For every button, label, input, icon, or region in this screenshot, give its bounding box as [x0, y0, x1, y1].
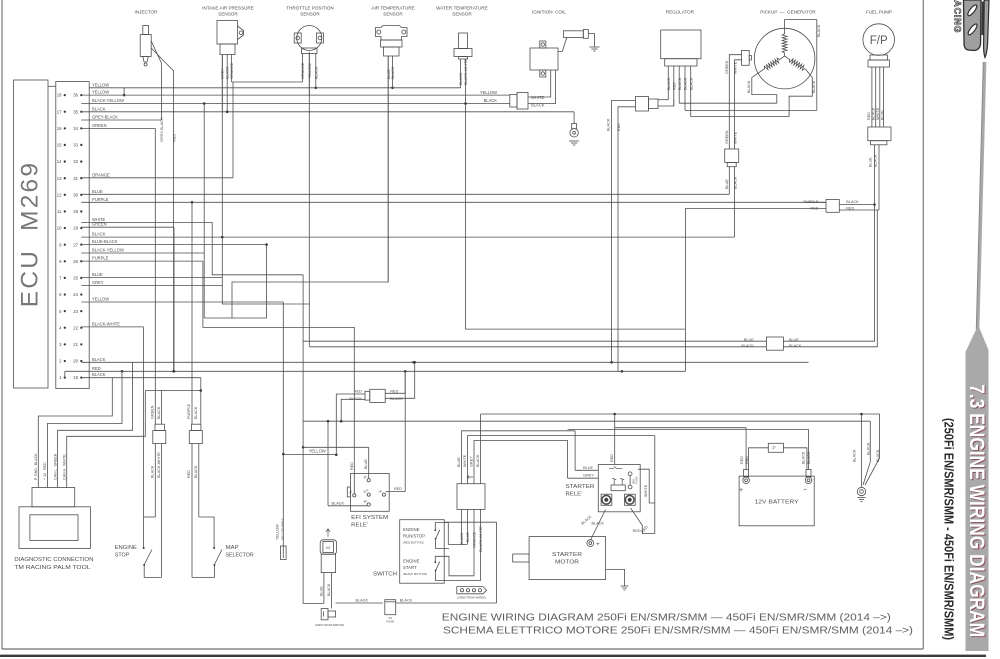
- svg-text:BLACK: BLACK: [390, 397, 403, 401]
- svg-text:SENSOR: SENSOR: [218, 12, 238, 17]
- svg-text:26: 26: [73, 259, 78, 264]
- ATS body: [376, 26, 408, 41]
- node black-yellow tap: [203, 102, 206, 105]
- svg-text:H2: H2: [326, 546, 330, 550]
- wire connector right to fuel pump: [839, 204, 874, 206]
- wire connector Q right black to fuel pump: [783, 210, 877, 347]
- wire green engine stop: [154, 128, 156, 424]
- H2O sensor connector: [320, 540, 336, 554]
- TPS left ear: [294, 33, 301, 43]
- svg-text:INTAKE AIR PRESSURE: INTAKE AIR PRESSURE: [202, 6, 253, 11]
- svg-text:STARTER: STARTER: [552, 552, 583, 558]
- svg-text:12: 12: [57, 192, 62, 197]
- wire black staircase pin9a: [222, 237, 309, 304]
- spark plug symbol: [572, 124, 577, 129]
- svg-text:SENSOR: SENSOR: [300, 12, 320, 17]
- svg-text:BLUE: BLUE: [725, 179, 729, 189]
- generator winding lower-right coil: [785, 56, 806, 70]
- svg-text:BLACK: BLACK: [151, 465, 155, 478]
- wire black-white pin4 drop: [142, 327, 144, 548]
- wire connector right black to black bus: [385, 362, 415, 398]
- svg-text:RELE’: RELE’: [566, 492, 583, 498]
- starter motor box: [529, 537, 606, 580]
- wire purple map upper: [191, 202, 193, 424]
- ground starter motor: [621, 586, 629, 590]
- plug cap end: [583, 30, 588, 39]
- wire yellow to efi relay coil: [283, 454, 335, 456]
- wire blue drop to stack: [460, 431, 462, 484]
- svg-text:BLACK: BLACK: [476, 454, 480, 467]
- wire fuse to minus side: [783, 448, 807, 470]
- svg-text:WHITE: WHITE: [733, 61, 737, 74]
- IAPS connector: [220, 44, 235, 55]
- fuse 15A battery: [768, 443, 783, 452]
- svg-text:BLACK-WHITE: BLACK-WHITE: [479, 526, 483, 552]
- frame right border: [922, 0, 924, 649]
- wire red connector left down to red bus: [685, 209, 826, 372]
- wire grey to relay: [568, 477, 598, 479]
- wire white branch to starter relay: [467, 435, 654, 437]
- TPS right ear: [316, 33, 323, 43]
- wire blue-black pin9: [81, 244, 266, 246]
- wire black ats link: [124, 87, 461, 89]
- wire run/stop lower stub: [436, 539, 449, 548]
- svg-text:BLACK-WHITE: BLACK-WHITE: [464, 59, 468, 85]
- diagnostic wire can-h: [67, 391, 146, 488]
- wire grey drop to stack: [473, 440, 475, 483]
- node yellow branch: [282, 453, 285, 456]
- wire 3-phase 3: [691, 116, 789, 118]
- svg-text:8: 8: [59, 259, 62, 264]
- svg-text:RED: RED: [394, 487, 402, 491]
- wire connector left red: [336, 394, 365, 455]
- wire regulator black to bus: [612, 101, 636, 363]
- svg-text:FUEL PUMP: FUEL PUMP: [866, 10, 892, 15]
- WTS thread: [459, 57, 468, 60]
- wire battery plus up: [745, 428, 747, 470]
- wire band B2: [303, 420, 870, 422]
- svg-text:BLACK: BLACK: [157, 406, 161, 419]
- svg-text:YELLOW: YELLOW: [480, 90, 497, 95]
- svg-text:BLACK: BLACK: [817, 24, 821, 37]
- svg-text:+: +: [596, 541, 600, 548]
- node red injector junction: [172, 370, 175, 373]
- svg-text:+ 12 RED: + 12 RED: [43, 462, 47, 480]
- svg-text:BLACK-WHITE: BLACK-WHITE: [157, 452, 161, 478]
- svg-text:BLACK: BLACK: [846, 200, 859, 204]
- ATS thread: [384, 47, 400, 56]
- svg-text:RED: RED: [745, 456, 749, 464]
- wire blue to efi relay: [368, 447, 370, 473]
- ignition coil body: [530, 48, 558, 70]
- svg-text:GREEN: GREEN: [725, 130, 729, 144]
- coil top tab: [540, 41, 546, 48]
- wire black-yellow pin35: [81, 103, 510, 105]
- connector map selector: [192, 424, 201, 430]
- svg-text:27: 27: [73, 242, 78, 247]
- svg-text:BLACK: BLACK: [802, 451, 806, 464]
- svg-text:(VIEW FROM ARROW): (VIEW FROM ARROW): [315, 623, 344, 627]
- spark plug cap rod: [564, 31, 584, 38]
- efi relay box: [351, 473, 390, 511]
- svg-text:STOP: STOP: [115, 553, 130, 559]
- svg-text:BLACK: BLACK: [789, 344, 802, 348]
- svg-text:BLACK: BLACK: [356, 599, 369, 603]
- svg-text:GREY: GREY: [470, 456, 474, 467]
- svg-text:PURPLE: PURPLE: [92, 197, 109, 202]
- switch map selector symbol: [199, 517, 214, 548]
- starter relay box: [598, 465, 640, 512]
- wire connector right red down: [839, 209, 877, 211]
- svg-text:WATER TEMPERATURE: WATER TEMPERATURE: [436, 6, 488, 11]
- wire ats blue staircase: [232, 56, 388, 318]
- svg-text:START: START: [403, 565, 417, 570]
- generator winding lower-left coil: [764, 56, 785, 70]
- wire black drop to stack: [480, 414, 482, 484]
- wire grey pin6a to iaps grey: [81, 285, 222, 287]
- TPS body circle: [297, 26, 322, 51]
- node red bus diag: [121, 370, 124, 373]
- svg-text:7: 7: [59, 276, 62, 281]
- svg-text:BLACK-YELLOW: BLACK-YELLOW: [92, 98, 124, 103]
- svg-text:(VIEW FROM WIRES): (VIEW FROM WIRES): [457, 596, 486, 600]
- TM logo slot 1: [966, 4, 978, 17]
- svg-text:MAP: MAP: [226, 545, 240, 551]
- efi relay pin 87a: [367, 493, 370, 496]
- injector top cap: [143, 26, 149, 35]
- wire regulator red to bus: [618, 107, 636, 372]
- wire purple staircase pin8: [203, 261, 354, 473]
- svg-text:SENSOR: SENSOR: [452, 12, 472, 17]
- svg-text:9: 9: [59, 242, 62, 247]
- wire battery fuse branch: [749, 448, 769, 470]
- svg-text:BLACK: BLACK: [92, 232, 106, 237]
- node black-grey junction: [221, 236, 224, 239]
- svg-text:BLACK-WHITE: BLACK-WHITE: [92, 321, 120, 326]
- efi relay pin 87: [353, 494, 356, 497]
- wire grey-black injector vertical: [160, 80, 162, 120]
- diagnostic wire p-gnd: [38, 378, 112, 488]
- svg-text:CAN H WHITE: CAN H WHITE: [62, 454, 66, 480]
- injector wires diagonal: [151, 41, 161, 80]
- node red regulator junction: [621, 370, 624, 373]
- svg-text:RED: RED: [867, 112, 871, 120]
- svg-text:BLACK: BLACK: [747, 80, 751, 93]
- stack lower wires: [460, 509, 462, 544]
- wire black to ecu lower link: [145, 390, 201, 392]
- svg-text:BLACK: BLACK: [459, 72, 463, 85]
- wire black band1 to ground bolt: [861, 414, 863, 487]
- wire black engine stop upper: [160, 391, 162, 425]
- fuse F1 2A: [385, 600, 396, 615]
- coil primary wires: [528, 70, 551, 97]
- wire switch loop top: [444, 521, 496, 523]
- regulator connector: [665, 59, 697, 66]
- injector tip: [144, 63, 147, 66]
- sidebar grey banner: [966, 62, 989, 651]
- svg-text:RELE’: RELE’: [351, 523, 368, 529]
- node regulator black bus: [610, 361, 613, 364]
- wire generator lower-right exit: [789, 69, 812, 116]
- node band 2: [340, 420, 343, 423]
- wire blue efi into pin 85: [368, 473, 370, 478]
- contact stop lower: [143, 564, 145, 566]
- svg-text:ENGINE: ENGINE: [403, 527, 420, 532]
- svg-text:YELLOW: YELLOW: [92, 297, 109, 302]
- svg-text:22: 22: [73, 325, 78, 330]
- svg-text:BLACK: BLACK: [391, 66, 395, 79]
- IAPS wires: [221, 55, 223, 112]
- svg-text:31: 31: [73, 176, 78, 181]
- wire iaps grey trunk: [221, 55, 223, 238]
- connector engine stop: [155, 424, 164, 430]
- svg-text:ENGINE: ENGINE: [115, 545, 138, 551]
- starter relay contacts: [609, 466, 623, 469]
- node iaps black to black bus: [226, 111, 229, 114]
- svg-text:34: 34: [73, 126, 78, 131]
- wire connector Q right blue to fuel pump: [783, 205, 874, 342]
- node yellow junction: [123, 94, 126, 97]
- wire white pin10a: [81, 221, 212, 223]
- starter relay coil: [611, 485, 625, 491]
- wire black-yellow vertical link: [203, 104, 205, 319]
- wire green pin10: [81, 226, 174, 228]
- svg-text:BLACK: BLACK: [92, 106, 106, 111]
- svg-text:BLACK: BLACK: [225, 66, 229, 79]
- wire black map upper: [200, 378, 202, 425]
- svg-text:BLUE: BLUE: [92, 272, 103, 277]
- node ground tap: [860, 413, 863, 416]
- svg-text:FUSE: FUSE: [635, 476, 639, 484]
- efi relay pin 86: [367, 503, 370, 506]
- wire black band2 diagonal to ground: [863, 421, 870, 485]
- svg-text:RUN/STOP: RUN/STOP: [403, 534, 425, 539]
- wire white relay right: [638, 469, 655, 503]
- svg-text:YELLOW: YELLOW: [309, 448, 326, 453]
- starter relay internal fuse circles: [628, 472, 632, 476]
- svg-text:BLACK: BLACK: [874, 154, 878, 167]
- svg-text:GREEN: GREEN: [151, 405, 155, 419]
- arrow mark near stack: [467, 476, 473, 479]
- svg-text:F/P: F/P: [870, 35, 888, 47]
- svg-text:16: 16: [57, 126, 62, 131]
- svg-text:5: 5: [59, 309, 62, 314]
- svg-text:GREEN: GREEN: [92, 123, 107, 128]
- wire black pin1: [81, 377, 201, 379]
- svg-text:BLUE: BLUE: [92, 189, 103, 194]
- svg-text:BLACK: BLACK: [607, 118, 611, 131]
- svg-text:SENSOR: SENSOR: [383, 12, 403, 17]
- svg-text:BLUE: BLUE: [466, 532, 470, 542]
- svg-text:RED: RED: [610, 454, 614, 462]
- wire trunk down to arrow plug: [303, 447, 324, 603]
- wire map bottom: [192, 565, 214, 577]
- wire purple into connector: [805, 201, 826, 203]
- wire blue branch to starter relay: [461, 430, 575, 432]
- wire black pin17 to spark plug: [81, 111, 574, 113]
- svg-text:BLACK: BLACK: [867, 442, 871, 455]
- TPS wires: [302, 54, 304, 83]
- node yellow junction: [335, 454, 338, 457]
- ATS right hole: [402, 30, 406, 34]
- regulator body: [661, 30, 701, 59]
- node red efi junction: [404, 370, 407, 373]
- battery 12V box: [739, 476, 814, 526]
- svg-text:+: +: [739, 487, 743, 494]
- svg-text:THROTTLE POSITION: THROTTLE POSITION: [286, 6, 333, 11]
- svg-text:BLUE: BLUE: [320, 586, 324, 596]
- generator circle: [754, 28, 815, 89]
- coil bottom tab: [540, 70, 546, 77]
- svg-text:GREEN: GREEN: [92, 222, 107, 227]
- TM logo side bar: [984, 0, 989, 58]
- switch blade engine stop: [145, 550, 153, 565]
- wire blue-black pickup below: [728, 167, 730, 195]
- page bottom heavy rule: [0, 655, 986, 657]
- node blue-black junction: [265, 243, 268, 246]
- contact map upper: [213, 547, 215, 549]
- wire white trunk down to yellow node: [302, 275, 304, 448]
- wire band battery plus feed: [615, 427, 746, 429]
- pickup connector tab: [749, 56, 751, 60]
- svg-text:ENGINE WIRING DIAGRAM 250Fi: ENGINE WIRING DIAGRAM 250Fi EN/SMR/SMM —…: [442, 613, 891, 624]
- node fuel pump blue: [873, 203, 876, 206]
- diagnostic wire +12 red: [47, 371, 122, 487]
- svg-text:RED: RED: [92, 366, 101, 371]
- switch blade start: [436, 562, 440, 570]
- svg-text:BLACK: BLACK: [667, 77, 671, 90]
- wire red pin19 bus: [65, 370, 686, 372]
- wire grey-black pin34 to injector: [81, 119, 161, 121]
- svg-text:30: 30: [73, 192, 78, 197]
- svg-text:21: 21: [73, 342, 78, 347]
- wire orange link iaps-tps: [232, 81, 303, 83]
- svg-text:GREEN: GREEN: [725, 60, 729, 74]
- wire loopB black to connector Q: [310, 346, 767, 348]
- wire green trunk pin10 down to red bus: [173, 227, 175, 371]
- svg-text:ENGINE: ENGINE: [403, 559, 420, 564]
- connector regulator main: [636, 97, 649, 112]
- svg-text:20: 20: [73, 359, 78, 364]
- svg-text:BLUE: BLUE: [364, 459, 368, 469]
- wire motor ground: [606, 569, 625, 586]
- svg-text:YELLOW: YELLOW: [276, 524, 280, 540]
- svg-text:WHITE: WHITE: [733, 131, 737, 144]
- wire fuse right: [396, 602, 497, 604]
- wire red jog from pin 19: [64, 371, 66, 377]
- svg-text:ECU M269: ECU M269: [17, 161, 44, 307]
- WTS wires: [460, 59, 462, 88]
- svg-text:GREY-BLACK: GREY-BLACK: [159, 117, 164, 142]
- wire switch loop vertical: [496, 522, 498, 603]
- svg-text:2: 2: [59, 359, 62, 364]
- svg-text:TM RACING PALM TOOL: TM RACING PALM TOOL: [14, 565, 90, 571]
- wire band battery minus feed: [568, 428, 809, 430]
- connector pickup mid: [725, 149, 739, 163]
- svg-text:29: 29: [73, 209, 78, 214]
- svg-text:(250Fi EN/SMR/SMM - 450Fi EN/S: (250Fi EN/SMR/SMM - 450Fi EN/SMR/SMM): [942, 418, 956, 640]
- svg-text:WHITE: WHITE: [876, 107, 880, 120]
- svg-text:BLACK: BLACK: [194, 406, 198, 419]
- connector purple-red / black-red: [826, 200, 839, 213]
- svg-text:6: 6: [59, 292, 62, 297]
- wire orange pin13 to sensors: [81, 177, 233, 179]
- unused yellow wire tape end: [281, 546, 287, 560]
- ground chassis: [858, 498, 866, 502]
- wire blue-black trunk down: [266, 245, 268, 318]
- wire fuel pump blue-black down: [874, 145, 876, 205]
- svg-text:BLACK: BLACK: [684, 77, 688, 90]
- svg-text:REGULATOR: REGULATOR: [666, 10, 695, 15]
- svg-text:WHITE: WHITE: [463, 454, 467, 467]
- svg-text:BLUE: BLUE: [869, 157, 873, 167]
- svg-text:BLUE: BLUE: [387, 69, 391, 79]
- wire blue pin12 to pickup: [81, 193, 729, 195]
- wire purple pin8: [81, 260, 203, 262]
- svg-text:BLUE-BLACK: BLUE-BLACK: [92, 239, 118, 244]
- svg-text:RACING: RACING: [953, 0, 963, 33]
- node wts black-white tap: [464, 102, 467, 105]
- svg-text:4: 4: [59, 325, 62, 330]
- svg-text:BLACK: BLACK: [852, 449, 856, 462]
- frame left border: [1, 0, 3, 649]
- svg-text:WHITE: WHITE: [644, 484, 648, 497]
- spark plug drop: [573, 112, 575, 124]
- wire stop bottom: [144, 565, 161, 577]
- wire tps yellow trunk: [308, 52, 310, 347]
- wire black band3 diagonal to ground: [865, 414, 880, 485]
- svg-text:BLACK: BLACK: [92, 372, 106, 377]
- svg-text:(NO USE/WRN): (NO USE/WRN): [280, 519, 284, 541]
- svg-text:17: 17: [57, 109, 62, 114]
- wire white link to efi relay blue: [303, 446, 369, 448]
- svg-text:BLACK: BLACK: [733, 176, 737, 189]
- node yellow-white junction: [302, 446, 305, 449]
- node black bus junction: [412, 361, 415, 364]
- svg-text:18: 18: [57, 93, 62, 98]
- wire ECU to pin header: [48, 85, 56, 87]
- svg-text:15: 15: [771, 445, 777, 451]
- svg-text:EFI SYSTEM: EFI SYSTEM: [351, 515, 388, 521]
- wire band B1 black: [481, 413, 880, 415]
- WTS hex: [454, 49, 472, 57]
- ground spark plug: [569, 141, 579, 145]
- wire start lower to black-white: [436, 571, 481, 581]
- wire yellow efi trunk with dead-end tail: [282, 302, 284, 558]
- svg-text:7.3 ENGINE WIRING DIAGRAM: 7.3 ENGINE WIRING DIAGRAM: [965, 384, 988, 637]
- wire white drop to stack: [466, 436, 468, 484]
- svg-text:BLACK: BLACK: [876, 449, 880, 462]
- ground ignition lead: [590, 47, 600, 51]
- wire generator lower-left exit: [752, 69, 777, 103]
- svg-text:PICKUP — GENERATOR: PICKUP — GENERATOR: [760, 10, 816, 15]
- svg-text:BLACK: BLACK: [678, 77, 682, 90]
- wire yellow pin36a: [89, 87, 124, 89]
- wire yellow pin6 to efi relay: [81, 301, 283, 303]
- wire blue upper loop: [466, 328, 686, 330]
- svg-text:SWITCH: SWITCH: [373, 572, 397, 578]
- svg-text:SELECTOR: SELECTOR: [226, 553, 254, 559]
- TM logo dark wedge: [982, 2, 985, 36]
- svg-text:RED: RED: [171, 134, 176, 142]
- svg-text:35: 35: [73, 109, 78, 114]
- wire engine stop lower: [154, 444, 156, 517]
- svg-text:12V BATTERY: 12V BATTERY: [755, 500, 800, 506]
- wire to fuse: [336, 602, 383, 604]
- svg-text:15: 15: [57, 143, 62, 148]
- svg-text:YELLOW: YELLOW: [308, 63, 312, 79]
- sidebar rail dark edge: [976, 62, 983, 329]
